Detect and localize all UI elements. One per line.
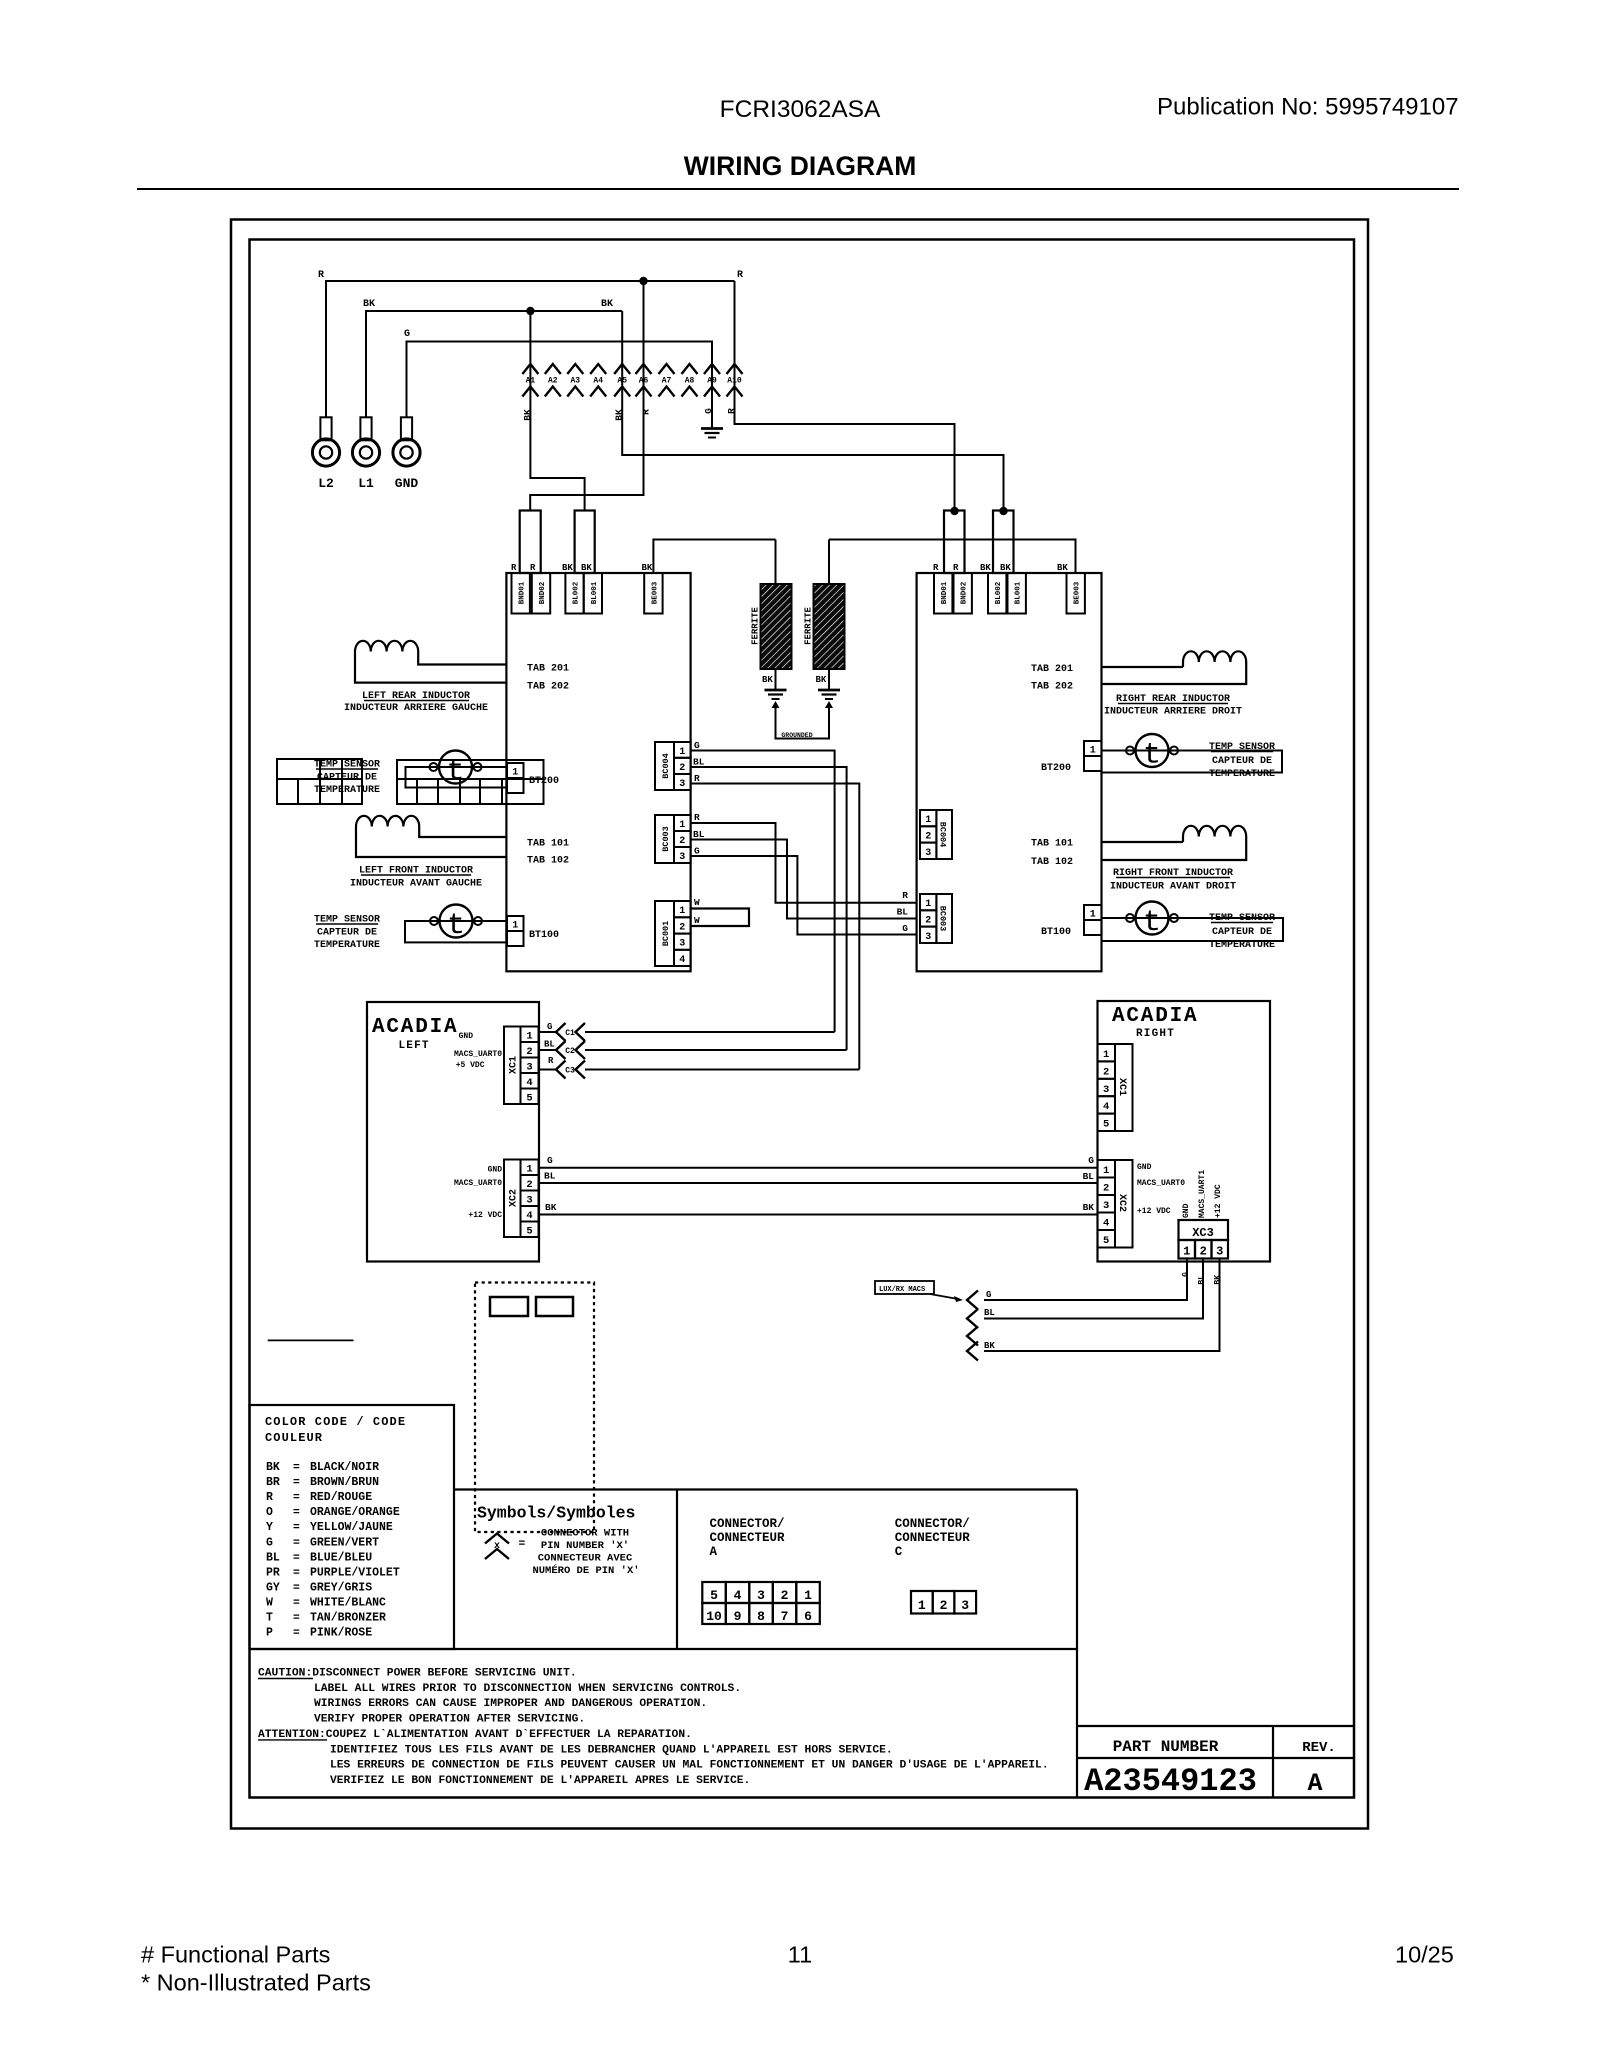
svg-text:t: t [1143,906,1161,940]
svg-text:BK: BK [642,563,653,573]
svg-text:BC003: BC003 [938,906,948,932]
svg-text:1: 1 [1103,1049,1109,1061]
svg-text:R: R [726,408,737,414]
svg-text:TAB 102: TAB 102 [527,856,569,867]
svg-text:2: 2 [1200,1245,1207,1259]
svg-text:A7: A7 [662,377,672,386]
svg-text:G: G [1088,1155,1094,1166]
svg-text:VERIFIEZ LE BON FONCTIONNEMENT: VERIFIEZ LE BON FONCTIONNEMENT DE L'APPA… [330,1775,750,1787]
svg-text:3: 3 [679,779,685,790]
svg-text:FERRITE: FERRITE [751,607,761,645]
svg-text:TAB 201: TAB 201 [527,664,569,675]
svg-text:BR: BR [266,1476,280,1489]
svg-text:BE003: BE003 [651,581,659,604]
svg-text:BL: BL [266,1551,280,1564]
svg-text:t: t [446,755,464,789]
svg-text:BC001: BC001 [661,921,671,947]
svg-text:BLUE/BLEU: BLUE/BLEU [310,1551,372,1564]
svg-text:LEFT: LEFT [399,1040,430,1052]
svg-text:GND: GND [459,1032,474,1041]
svg-text:BC004: BC004 [938,822,948,848]
svg-text:A: A [710,1545,718,1559]
svg-text:BK: BK [980,563,991,573]
svg-text:BC004: BC004 [661,753,671,779]
svg-text:WIRING DIAGRAM: WIRING DIAGRAM [684,151,917,181]
svg-text:3: 3 [679,852,685,863]
svg-text:CONNECTEUR AVEC: CONNECTEUR AVEC [538,1553,633,1565]
svg-text:t: t [447,909,465,943]
svg-text:BT100: BT100 [1041,927,1071,938]
svg-text:A: A [1307,1769,1322,1798]
svg-text:9: 9 [734,1609,742,1624]
svg-text:XC3: XC3 [1192,1226,1214,1240]
svg-text:XC1: XC1 [1116,1078,1127,1096]
svg-text:5: 5 [526,1226,532,1238]
svg-text:BK: BK [545,1202,557,1213]
svg-text:BK: BK [1214,1275,1223,1285]
svg-text:TAB 201: TAB 201 [1031,664,1073,675]
svg-text:BK: BK [1083,1202,1095,1213]
svg-text:BK: BK [984,1341,995,1351]
svg-text:ORANGE/ORANGE: ORANGE/ORANGE [310,1506,400,1519]
svg-text:CAPTEUR DE: CAPTEUR DE [1212,756,1272,767]
svg-text:GND: GND [488,1166,503,1175]
svg-text:+5 VDC: +5 VDC [456,1061,485,1070]
svg-text:BL002: BL002 [995,581,1003,604]
svg-text:BL: BL [693,829,705,840]
svg-text:1: 1 [925,815,931,826]
svg-text:L2: L2 [318,476,334,491]
svg-text:1: 1 [679,747,685,758]
svg-text:R: R [641,409,652,415]
svg-text:2: 2 [940,1598,948,1613]
svg-text:1: 1 [804,1588,812,1603]
svg-text:A6: A6 [639,377,649,386]
svg-text:BK: BK [762,675,773,685]
svg-text:4: 4 [1103,1101,1109,1113]
svg-text:2: 2 [1103,1066,1109,1078]
svg-text:=: = [293,1597,300,1609]
svg-text:R: R [530,563,536,573]
svg-text:1: 1 [679,906,685,917]
svg-text:O: O [266,1506,273,1519]
svg-text:R: R [933,563,939,573]
svg-text:R: R [694,812,700,823]
svg-text:A23549123: A23549123 [1084,1763,1257,1800]
svg-text:XC2: XC2 [509,1189,520,1207]
svg-text:BL001: BL001 [591,581,599,604]
svg-text:G: G [986,1290,991,1300]
svg-text:BL001: BL001 [1015,581,1023,604]
svg-text:TAN/BRONZER: TAN/BRONZER [310,1612,386,1625]
svg-text:t: t [1143,739,1161,773]
svg-text:R: R [266,1491,273,1504]
svg-text:11: 11 [788,1942,812,1968]
svg-text:A2: A2 [548,377,558,386]
svg-text:YELLOW/JAUNE: YELLOW/JAUNE [310,1521,393,1534]
svg-text:BND02: BND02 [539,581,547,604]
svg-text:BND02: BND02 [961,581,969,604]
svg-text:2: 2 [679,836,685,847]
svg-text:W: W [266,1596,273,1609]
svg-text:C1: C1 [565,1029,575,1038]
svg-text:5: 5 [1103,1119,1109,1131]
svg-text:LABEL ALL WIRES PRIOR TO DISCO: LABEL ALL WIRES PRIOR TO DISCONNECTION W… [314,1683,741,1695]
svg-text:R: R [548,1056,554,1066]
svg-text:+12 VDC: +12 VDC [1137,1207,1171,1216]
svg-text:BROWN/BRUN: BROWN/BRUN [310,1476,379,1489]
svg-text:BL002: BL002 [573,581,581,604]
svg-text:TAB 202: TAB 202 [527,682,569,693]
svg-text:=: = [293,1462,300,1474]
svg-text:Publication No: 5995749107: Publication No: 5995749107 [1157,94,1459,121]
svg-text:BK: BK [562,563,573,573]
svg-text:BT200: BT200 [529,776,559,787]
svg-text:A3: A3 [570,377,580,386]
svg-text:INDUCTEUR AVANT GAUCHE: INDUCTEUR AVANT GAUCHE [350,879,482,890]
svg-text:2: 2 [526,1179,532,1191]
svg-text:FCRI3062ASA: FCRI3062ASA [720,96,881,123]
svg-text:1: 1 [918,1598,926,1613]
svg-text:1: 1 [1183,1245,1190,1259]
svg-text:R: R [511,563,517,573]
svg-text:A1: A1 [526,377,536,386]
svg-text:1: 1 [512,768,518,779]
svg-text:BK: BK [363,299,375,310]
svg-text:1: 1 [512,921,518,932]
svg-text:3: 3 [757,1588,765,1603]
svg-text:BK: BK [581,563,592,573]
svg-text:TAB 101: TAB 101 [1031,839,1073,850]
svg-text:REV.: REV. [1302,1740,1336,1756]
svg-text:TAB 101: TAB 101 [527,839,569,850]
svg-text:2: 2 [679,763,685,774]
svg-text:COLOR CODE / CODE: COLOR CODE / CODE [265,1415,406,1429]
svg-text:3: 3 [526,1062,532,1074]
svg-text:1: 1 [1090,746,1096,757]
svg-text:6: 6 [804,1609,812,1624]
svg-text:=: = [293,1522,300,1534]
svg-text:BL: BL [544,1171,556,1182]
svg-text:PURPLE/VIOLET: PURPLE/VIOLET [310,1566,400,1579]
svg-text:LES ERREURS DE CONNECTION DE F: LES ERREURS DE CONNECTION DE FILS PEUVEN… [330,1760,1049,1772]
svg-text:G: G [694,740,700,751]
svg-text:G: G [902,923,908,934]
svg-text:BT200: BT200 [1041,763,1071,774]
svg-text:MACS_UART1: MACS_UART1 [1198,1170,1207,1218]
svg-text:=: = [519,1539,526,1551]
svg-text:BND01: BND01 [519,581,527,604]
svg-text:=: = [293,1613,300,1625]
svg-text:GND: GND [1137,1163,1152,1172]
svg-text:5: 5 [1103,1235,1109,1247]
svg-text:BK: BK [1000,563,1011,573]
svg-text:GND: GND [395,476,419,491]
svg-text:ATTENTION:COUPEZ L`ALIMENTATIO: ATTENTION:COUPEZ L`ALIMENTATION AVANT D`… [258,1729,692,1741]
svg-text:5: 5 [526,1093,532,1105]
svg-text:G: G [694,846,700,857]
svg-text:Y: Y [266,1521,273,1534]
svg-text:GND: GND [1182,1203,1191,1218]
svg-text:TEMPERATURE: TEMPERATURE [314,785,380,796]
svg-text:5: 5 [710,1588,718,1603]
svg-text:MACS_UART0: MACS_UART0 [1137,1179,1185,1188]
svg-text:R: R [318,270,324,281]
svg-text:C3: C3 [565,1067,575,1076]
svg-text:7: 7 [781,1609,789,1624]
svg-text:=: = [293,1537,300,1549]
svg-text:4: 4 [734,1588,742,1603]
svg-text:4: 4 [679,955,685,966]
svg-text:C2: C2 [565,1047,575,1056]
svg-text:P: P [266,1627,273,1640]
svg-text:GREY/GRIS: GREY/GRIS [310,1581,372,1594]
svg-text:3: 3 [679,939,685,950]
svg-text:MACS_UART0: MACS_UART0 [454,1179,502,1188]
svg-text:2: 2 [1103,1183,1109,1195]
svg-text:2: 2 [526,1046,532,1058]
svg-text:CAUTION:DISCONNECT POWER BEFOR: CAUTION:DISCONNECT POWER BEFORE SERVICIN… [258,1668,577,1680]
svg-text:TAB 102: TAB 102 [1031,857,1073,868]
svg-text:=: = [293,1552,300,1564]
svg-text:+12 VDC: +12 VDC [468,1211,502,1220]
svg-text:NUMÉRO DE PIN 'X': NUMÉRO DE PIN 'X' [532,1563,639,1577]
svg-text:1: 1 [679,820,685,831]
svg-text:A9: A9 [707,377,717,386]
svg-text:G: G [703,408,714,414]
svg-text:IDENTIFIEZ TOUS LES FILS AVANT: IDENTIFIEZ TOUS LES FILS AVANT DE LES DE… [330,1744,893,1756]
svg-text:VERIFY PROPER OPERATION AFTER: VERIFY PROPER OPERATION AFTER SERVICING. [314,1714,585,1726]
svg-text:R: R [902,890,908,901]
svg-text:3: 3 [1103,1200,1109,1212]
svg-text:INDUCTEUR ARRIERE DROIT: INDUCTEUR ARRIERE DROIT [1104,707,1242,718]
svg-text:INDUCTEUR AVANT DROIT: INDUCTEUR AVANT DROIT [1110,882,1236,893]
svg-text:4: 4 [526,1077,532,1089]
svg-text:8: 8 [757,1609,765,1624]
svg-text:XC1: XC1 [509,1056,520,1074]
svg-text:R: R [694,773,700,784]
svg-text:GROUNDED: GROUNDED [781,732,812,739]
svg-text:# Functional Parts: # Functional Parts [141,1942,330,1968]
svg-text:2: 2 [781,1588,789,1603]
svg-text:A8: A8 [685,377,695,386]
svg-text:GREEN/VERT: GREEN/VERT [310,1536,379,1549]
svg-text:CONNECTEUR: CONNECTEUR [710,1531,786,1545]
svg-text:3: 3 [526,1195,532,1207]
svg-text:W: W [694,897,700,908]
svg-text:2: 2 [925,915,931,926]
svg-text:BL: BL [693,757,705,768]
svg-text:RIGHT: RIGHT [1136,1028,1175,1040]
svg-text:BK: BK [1057,563,1068,573]
svg-text:RED/ROUGE: RED/ROUGE [310,1491,372,1504]
svg-text:TAB 202: TAB 202 [1031,682,1073,693]
svg-text:L1: L1 [358,476,374,491]
svg-text:WIRINGS ERRORS CAN CAUSE IMPRO: WIRINGS ERRORS CAN CAUSE IMPROPER AND DA… [314,1698,707,1710]
svg-text:LUX/RX MACS: LUX/RX MACS [879,1286,925,1294]
svg-text:4: 4 [1103,1218,1109,1230]
svg-text:XC2: XC2 [1116,1194,1127,1212]
svg-text:10/25: 10/25 [1395,1942,1454,1968]
svg-text:CAPTEUR DE: CAPTEUR DE [317,928,377,939]
svg-text:GY: GY [266,1581,280,1594]
svg-text:=: = [293,1492,300,1504]
svg-text:A4: A4 [593,377,603,386]
svg-text:TEMPERATURE: TEMPERATURE [314,940,380,951]
svg-text:BE003: BE003 [1074,581,1082,604]
svg-text:BK: BK [266,1461,280,1474]
svg-text:4: 4 [526,1210,532,1222]
svg-text:CONNECTOR/: CONNECTOR/ [895,1517,970,1531]
svg-text:=: = [293,1507,300,1519]
svg-text:2: 2 [925,831,931,842]
svg-text:Symbols/Symboles: Symbols/Symboles [477,1504,635,1523]
svg-text:G: G [547,1022,552,1032]
svg-text:BLACK/NOIR: BLACK/NOIR [310,1461,379,1474]
svg-text:1: 1 [526,1164,532,1176]
svg-text:C: C [895,1545,903,1559]
svg-text:CAPTEUR DE: CAPTEUR DE [317,773,377,784]
svg-text:1: 1 [1090,910,1096,921]
svg-text:PR: PR [266,1566,280,1579]
svg-text:R: R [953,563,959,573]
svg-text:CONNECTEUR: CONNECTEUR [895,1531,971,1545]
svg-text:3: 3 [1216,1245,1223,1259]
svg-text:1: 1 [1103,1165,1109,1177]
svg-text:1: 1 [925,899,931,910]
svg-text:G: G [266,1536,273,1549]
svg-text:BL: BL [544,1040,555,1050]
svg-text:G: G [547,1155,553,1166]
svg-text:3: 3 [925,848,931,859]
svg-text:FERRITE: FERRITE [804,607,814,645]
svg-text:=: = [293,1567,300,1579]
svg-text:W: W [694,915,700,926]
svg-text:BK: BK [601,299,613,310]
svg-text:2: 2 [679,922,685,933]
svg-text:BL: BL [984,1308,995,1318]
svg-text:CONNECTOR/: CONNECTOR/ [710,1517,785,1531]
svg-text:* Non-Illustrated Parts: * Non-Illustrated Parts [141,1970,371,1996]
svg-text:=: = [293,1628,300,1640]
svg-text:COULEUR: COULEUR [265,1431,323,1445]
svg-text:3: 3 [925,932,931,943]
svg-text:=: = [293,1582,300,1594]
svg-text:BT100: BT100 [529,930,559,941]
svg-text:WHITE/BLANC: WHITE/BLANC [310,1596,386,1609]
svg-text:ACADIA: ACADIA [372,1016,458,1039]
svg-text:BL: BL [1083,1171,1095,1182]
svg-text:PART NUMBER: PART NUMBER [1113,1738,1219,1756]
svg-text:BC003: BC003 [661,826,671,852]
svg-text:G: G [404,329,410,340]
svg-text:PIN NUMBER 'X': PIN NUMBER 'X' [541,1540,629,1552]
svg-text:TEMPERATURE: TEMPERATURE [1209,940,1275,951]
svg-text:A5: A5 [617,377,627,386]
svg-text:1: 1 [526,1031,532,1043]
svg-text:BK: BK [816,675,827,685]
svg-text:BND01: BND01 [941,581,949,604]
svg-text:=: = [293,1477,300,1489]
svg-text:PINK/ROSE: PINK/ROSE [310,1627,372,1640]
svg-text:A10: A10 [727,377,742,386]
svg-text:BK: BK [614,409,625,421]
svg-text:T: T [266,1612,273,1625]
svg-text:CAPTEUR DE: CAPTEUR DE [1212,927,1272,938]
svg-text:+12 VDC: +12 VDC [1214,1184,1223,1218]
svg-text:R: R [737,270,743,281]
svg-text:TEMPERATURE: TEMPERATURE [1209,769,1275,780]
svg-text:INDUCTEUR ARRIERE GAUCHE: INDUCTEUR ARRIERE GAUCHE [344,703,488,714]
svg-text:BL: BL [897,907,909,918]
svg-text:3: 3 [961,1598,969,1613]
svg-text:10: 10 [706,1609,722,1624]
svg-text:3: 3 [1103,1084,1109,1096]
svg-text:CONNECTOR WITH: CONNECTOR WITH [541,1528,629,1540]
svg-text:MACS_UART0: MACS_UART0 [454,1050,502,1059]
svg-text:ACADIA: ACADIA [1112,1005,1198,1028]
svg-text:BK: BK [522,409,533,421]
